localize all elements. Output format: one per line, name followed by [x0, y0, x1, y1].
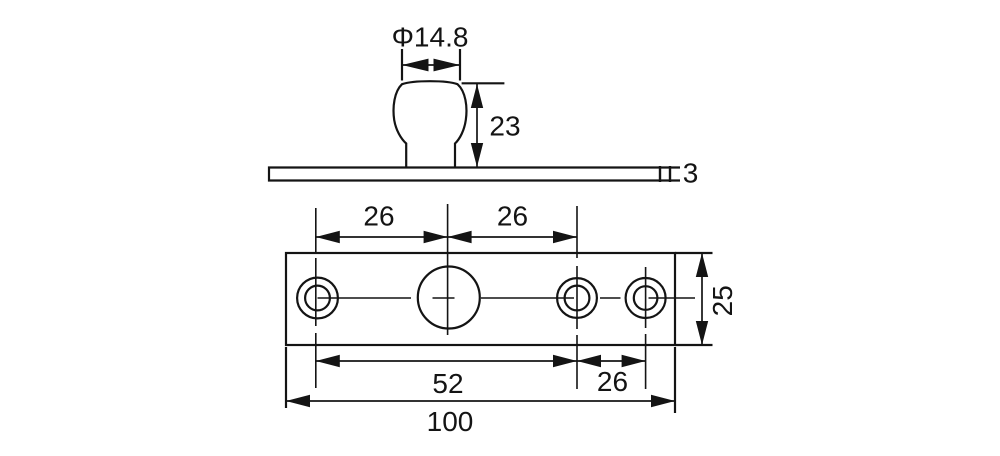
- dimension line 26 top pair: [316, 236, 577, 238]
- extension line 25 bottom: [675, 344, 713, 346]
- left screw hole outer circle: [297, 278, 338, 319]
- center ball hole circle: [418, 267, 480, 329]
- svg-text:23: 23: [489, 110, 520, 141]
- extension line 100 left: [285, 347, 287, 408]
- svg-text:26: 26: [497, 201, 528, 232]
- arrowhead 26 top-left inward at center: [424, 231, 448, 243]
- extension line 100 right: [674, 347, 676, 413]
- centerline horizontal through holes: [318, 297, 696, 299]
- svg-text:26: 26: [363, 201, 394, 232]
- arrowhead 26 top-right inward at center: [448, 231, 472, 243]
- dimension line 25: [701, 253, 703, 345]
- arrowhead Φ14.8 right: [434, 59, 461, 72]
- ball knob outline (side view): [394, 81, 467, 167]
- arrowhead 26 top-right outward: [553, 231, 577, 243]
- svg-text:26: 26: [597, 366, 628, 397]
- arrowhead Φ14.8 left: [402, 59, 429, 72]
- arrowhead 25 up: [696, 253, 708, 277]
- centerline center hole vertical: [447, 204, 449, 335]
- arrowhead 23 up: [471, 84, 483, 108]
- right screw hole 1 inner circle: [565, 286, 590, 311]
- arrowhead 52 left: [316, 355, 340, 367]
- extension line 25 top: [675, 252, 713, 254]
- arrowhead 100 left: [286, 395, 310, 407]
- dimension line Φ14.8: [402, 64, 460, 66]
- svg-text:25: 25: [707, 285, 738, 316]
- arrowhead 26 top-left outward: [316, 231, 340, 243]
- dimension line 100: [286, 400, 675, 402]
- thickness tick 2: [669, 166, 671, 182]
- plate outline (top view): [286, 253, 675, 345]
- dimension line 52 and 26 lower: [316, 360, 646, 362]
- dimension line 23: [476, 84, 478, 167]
- arrowhead 100 right: [651, 395, 675, 407]
- right screw hole 1 outer circle: [557, 278, 597, 318]
- svg-text:3: 3: [683, 158, 699, 189]
- arrowhead 26 lower-left: [577, 355, 601, 367]
- arrowhead 23 down: [471, 143, 483, 167]
- extension line left of Φ14.8: [401, 49, 403, 81]
- svg-text:100: 100: [427, 406, 474, 437]
- extension line top of 23: [462, 82, 505, 84]
- base plate (side view): [269, 168, 680, 181]
- right screw hole 2 outer circle: [626, 278, 666, 318]
- svg-text:52: 52: [432, 368, 463, 399]
- centerline right hole 1 vertical: [576, 206, 578, 389]
- thickness tick 1: [659, 166, 661, 182]
- right screw hole 2 inner circle: [634, 286, 658, 310]
- arrowhead 26 lower-right: [622, 355, 646, 367]
- centerline right hole 2 vertical: [645, 267, 647, 389]
- centerline left hole vertical: [315, 208, 317, 388]
- left screw hole inner circle: [305, 286, 330, 311]
- svg-text:Φ14.8: Φ14.8: [392, 22, 469, 53]
- extension line right of Φ14.8: [459, 49, 461, 81]
- arrowhead 52 right: [553, 355, 577, 367]
- arrowhead 25 down: [696, 321, 708, 345]
